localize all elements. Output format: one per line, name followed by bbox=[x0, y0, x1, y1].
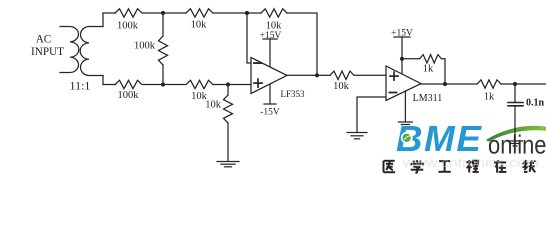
wire U1 output to node C bbox=[287, 74, 317, 76]
svg-text:www.cntronics.com: www.cntronics.com bbox=[402, 155, 539, 170]
node C (U1 output) junction dot bbox=[315, 73, 319, 77]
transformer T1 secondary winding bbox=[80, 27, 103, 76]
node E junction dot bbox=[226, 82, 230, 86]
logo CJK character 学 bbox=[411, 160, 424, 173]
wire capacitor to ground (over logo) bbox=[514, 106, 516, 141]
node D junction dot bbox=[161, 82, 165, 86]
comparator U2 minus sign bbox=[390, 92, 397, 94]
green swoosh over online bbox=[486, 126, 546, 142]
svg-text:10k: 10k bbox=[191, 20, 208, 31]
wire node H down to capacitor bbox=[514, 84, 516, 102]
svg-text:+15V: +15V bbox=[391, 29, 413, 39]
node G (U2 output) junction dot bbox=[443, 82, 447, 86]
svg-text:1k: 1k bbox=[484, 92, 495, 103]
svg-text:LM311: LM311 bbox=[413, 93, 443, 104]
logo CJK character 线 bbox=[524, 160, 536, 172]
svg-text:10k: 10k bbox=[333, 81, 350, 92]
node A junction dot bbox=[161, 11, 165, 15]
op-amp U1 LF353 triangle bbox=[251, 58, 287, 94]
wire U2 inverting input to ground bbox=[357, 97, 386, 132]
svg-text:100k: 100k bbox=[134, 41, 156, 52]
logo CJK character 在 bbox=[494, 160, 507, 173]
svg-text:+15V: +15V bbox=[260, 31, 282, 41]
supply +15V U1 terminal bbox=[263, 39, 277, 67]
svg-text:11:1: 11:1 bbox=[70, 79, 91, 93]
svg-text:100k: 100k bbox=[117, 21, 139, 32]
svg-text:10k: 10k bbox=[205, 100, 222, 111]
svg-text:1k: 1k bbox=[423, 64, 434, 75]
node H (RC output) junction dot bbox=[513, 82, 517, 86]
svg-text:LF353: LF353 bbox=[280, 89, 305, 99]
resistor R10 1k bbox=[477, 80, 501, 88]
wire top rail segment 1 bbox=[103, 12, 116, 14]
resistor R1 100k (top rail) bbox=[115, 9, 142, 17]
transformer T1 primary winding bbox=[60, 27, 79, 73]
resistor R7 10k (vertical to ground) bbox=[224, 95, 233, 123]
wire secondary top lead up to top rail bbox=[102, 13, 104, 27]
wire top rail segment 2 bbox=[143, 12, 186, 14]
wire +15V node to pull-up R9 bbox=[402, 58, 420, 60]
svg-text:AC: AC bbox=[36, 34, 52, 46]
resistor R8 10k bbox=[330, 71, 354, 79]
label AC INPUT bbox=[31, 34, 64, 59]
node B junction dot bbox=[245, 11, 249, 15]
wire U2 output to node G bbox=[421, 83, 477, 85]
op-amp U1 plus sign bbox=[254, 79, 262, 87]
resistor R5 10k feedback bbox=[261, 9, 287, 17]
ground G2 bbox=[347, 133, 367, 139]
wire node E drop bbox=[227, 85, 229, 96]
wire node C to R8 bbox=[317, 74, 330, 76]
resistor R9 1k pull-up bbox=[420, 55, 442, 63]
ground G3 bbox=[507, 141, 523, 146]
comparator U2 LM311 triangle bbox=[386, 66, 421, 101]
wire top rail segment 3 bbox=[213, 12, 261, 14]
svg-text:10k: 10k bbox=[266, 21, 283, 32]
wire bottom rail segment 3 to op-amp + input bbox=[213, 84, 251, 86]
capacitor C1 0.1 plates bbox=[508, 103, 523, 106]
supply -15V U1 terminal bbox=[264, 84, 276, 104]
op-amp U1 minus sign bbox=[254, 62, 261, 64]
ground G1 bbox=[217, 162, 239, 167]
wire R2 to bottom rail bbox=[162, 65, 164, 85]
svg-text:-15V: -15V bbox=[260, 108, 280, 118]
wire bottom rail segment 2 bbox=[143, 84, 186, 86]
logo CJK character 程 bbox=[466, 160, 478, 172]
resistor R6 10k (bottom rail) bbox=[186, 80, 213, 88]
wire +15V node into U2 top edge bbox=[401, 59, 403, 74]
svg-text:INPUT: INPUT bbox=[31, 46, 64, 58]
wire secondary bottom lead down to bottom rail bbox=[102, 76, 104, 85]
BME logo leaf emblem bbox=[401, 132, 413, 144]
comparator U2 plus sign bbox=[390, 72, 398, 80]
wire bottom rail segment 1 bbox=[103, 84, 116, 86]
wire top rail segment 4 and drop to output bbox=[287, 13, 317, 75]
wire R10 to node H and right edge bbox=[501, 83, 546, 85]
svg-text:0.1n: 0.1n bbox=[526, 98, 545, 109]
resistor R4 100k (bottom rail) bbox=[115, 80, 142, 88]
wire U2 bottom pin to ground bbox=[404, 91, 406, 122]
supply +15V U2 terminal bbox=[394, 37, 410, 59]
wire R9 down to output node G bbox=[442, 59, 446, 84]
svg-text:100k: 100k bbox=[118, 90, 140, 101]
node F (+15V U2) junction dot bbox=[400, 57, 404, 61]
resistor R2 100k (vertical) bbox=[159, 36, 168, 65]
wire R8 to comparator + input bbox=[354, 74, 386, 76]
logo CJK character 医 bbox=[383, 161, 395, 172]
wire node A drop bbox=[162, 13, 164, 36]
wire R7 to ground bbox=[227, 123, 229, 161]
ground G4 bbox=[398, 122, 412, 127]
wire node B drop to inverting input bbox=[247, 13, 251, 63]
logo CJK character 工 bbox=[438, 161, 450, 172]
resistor R3 10k (top rail) bbox=[186, 9, 213, 17]
